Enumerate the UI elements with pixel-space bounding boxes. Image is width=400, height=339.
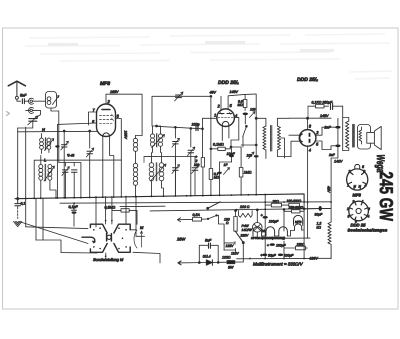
- svg-text:145V: 145V: [320, 114, 329, 118]
- svg-text:1MΩ: 1MΩ: [244, 171, 252, 175]
- svg-text:N: N: [42, 127, 45, 132]
- lamp: [252, 209, 310, 238]
- svg-text:0,1KΩ 250pF: 0,1KΩ 250pF: [312, 101, 334, 105]
- svg-text:Ω: Ω: [226, 221, 229, 225]
- svg-text:6: 6: [368, 207, 370, 211]
- socket DDD25: [346, 200, 370, 224]
- svg-text:28W: 28W: [176, 237, 186, 242]
- svg-text:3: 3: [363, 170, 365, 174]
- coil L3b: [133, 151, 137, 196]
- electrolytic 100uF a: [261, 213, 280, 224]
- trimmer T1: [61, 131, 69, 198]
- heater DDD25b: [262, 227, 291, 236]
- wire left rail x17.7: [17, 128, 19, 199]
- svg-text:Wega: Wega: [374, 155, 386, 173]
- svg-text:100Ω: 100Ω: [222, 256, 231, 260]
- ghost bleed-through texture: [25, 34, 392, 79]
- svg-text:0,1MΩ: 0,1MΩ: [213, 143, 224, 147]
- heater MF8 pair: [291, 215, 305, 230]
- capacitor 2nF upper: [322, 118, 341, 144]
- wire MF8 legs: [103, 146, 114, 196]
- svg-text:3W: 3W: [228, 266, 234, 270]
- svg-text:'5·45: '5·45: [67, 154, 74, 158]
- bus 2: [60, 202, 331, 203]
- trimmer osc top: [175, 92, 184, 101]
- svg-text:DDD 25/₁: DDD 25/₁: [218, 80, 239, 86]
- speaker: [367, 126, 381, 149]
- wire right of switch: [130, 224, 136, 236]
- capacitor blob under 0.6M: [243, 108, 256, 125]
- resistor 2M vertical: [194, 158, 205, 196]
- resistor 0.1M horizontal: [210, 143, 231, 151]
- svg-text:4: 4: [365, 184, 367, 188]
- capacitor 0.1uF left: [69, 203, 79, 226]
- trimmer T4: [86, 131, 94, 198]
- svg-text:MF8: MF8: [100, 81, 110, 87]
- svg-text:20Ω: 20Ω: [272, 200, 280, 204]
- svg-text:DDD 25/₂: DDD 25/₂: [297, 77, 318, 83]
- svg-text:MΩ: MΩ: [214, 176, 220, 180]
- svg-text:30μF: 30μF: [315, 213, 324, 217]
- capacitor 5nF antenna: [22, 99, 28, 104]
- wire h150: [202, 118, 204, 157]
- svg-text:MΩ: MΩ: [238, 103, 244, 107]
- electrolytic 50uF: [260, 252, 276, 257]
- svg-text:30μF: 30μF: [268, 254, 277, 258]
- diode line: [178, 255, 243, 266]
- capacitor 100 blob right: [247, 145, 259, 195]
- resistor 1M vertical: [239, 147, 251, 195]
- capacitor 10nF: [227, 149, 236, 162]
- trimmer mid2: [187, 128, 195, 195]
- svg-text:165V: 165V: [124, 131, 128, 140]
- resistor 130ohm vertical: [224, 210, 237, 231]
- transformer L: [39, 156, 56, 199]
- svg-text:Multiinstrument = 333Ω/V: Multiinstrument = 333Ω/V: [253, 262, 304, 267]
- coil box bottom lead: [51, 108, 59, 132]
- plug P2: [26, 107, 41, 118]
- diagonal wire to switch: [19, 222, 88, 244]
- trimmer T2: [62, 163, 70, 199]
- resistor 0.6M: [238, 94, 247, 110]
- svg-text:0,5MΩ: 0,5MΩ: [105, 206, 116, 210]
- svg-text:165V: 165V: [110, 90, 119, 94]
- ground left: [14, 222, 22, 227]
- wire MF8 anode top: [106, 94, 142, 135]
- coil L3a: [133, 136, 142, 152]
- electrolytic 30uF: [304, 206, 331, 217]
- resistor 1.2k zigzag: [317, 222, 332, 259]
- mains fuse line: [178, 213, 225, 250]
- svg-text:M: M: [262, 229, 265, 233]
- wire top tune drop: [151, 96, 153, 126]
- svg-text:0,1μF: 0,1μF: [69, 205, 79, 209]
- bottom rail: [237, 257, 332, 260]
- svg-text:1: 1: [362, 200, 364, 204]
- heater DDD25a: [266, 227, 275, 236]
- resistor 150-200: [284, 206, 304, 213]
- resistor 0.1M vertical: [209, 149, 219, 196]
- verticals below bus left: [26, 198, 43, 240]
- wires DDD25/1 legs: [222, 134, 229, 141]
- svg-text:5nF: 5nF: [205, 239, 212, 243]
- plug P1: [28, 98, 45, 104]
- resistor 0.1k + cap 250pF plate: [308, 101, 343, 119]
- wire MF8 pin3 right: [116, 119, 122, 197]
- wire osc top: [153, 126, 203, 129]
- wire DDD25/1 grid left: [203, 117, 217, 119]
- svg-text:5: 5: [348, 215, 350, 219]
- top tuning wire: [152, 95, 211, 97]
- wire block verticals: [264, 195, 266, 258]
- svg-text:0,1: 0,1: [21, 202, 26, 206]
- wires DDD25/2: [289, 135, 299, 156]
- svg-text:150-200Ω: 150-200Ω: [289, 206, 304, 210]
- tube MF8: [97, 104, 116, 146]
- capacitor 2nF lower: [322, 145, 341, 159]
- svg-text:245 GW: 245 GW: [376, 172, 397, 222]
- wire step left low: [36, 240, 97, 253]
- heater MF001A: [253, 227, 262, 236]
- rail x256: [255, 118, 257, 145]
- wire rail x25.7: [25, 127, 27, 199]
- svg-text:148V: 148V: [230, 90, 239, 94]
- svg-text:100μF: 100μF: [284, 254, 295, 258]
- svg-text:2: 2: [346, 207, 349, 211]
- switch under: [243, 125, 248, 147]
- svg-text:200 Ω: 200 Ω: [239, 205, 250, 209]
- svg-text:100μF: 100μF: [269, 220, 280, 224]
- AF transformer: [255, 117, 291, 158]
- wire DDD25/1 pin4 right: [231, 117, 239, 147]
- wire grid h131: [18, 131, 98, 162]
- svg-text:5: 5: [362, 165, 364, 169]
- svg-text:Sonderstellung M: Sonderstellung M: [93, 257, 124, 262]
- power switch blade on bus: [207, 207, 209, 209]
- svg-text:100-200Ω: 100-200Ω: [287, 199, 302, 203]
- svg-text:1: 1: [347, 184, 349, 188]
- trimmer T3: [72, 163, 78, 198]
- capacitor 1nF blob: [217, 162, 229, 195]
- transformer N: [40, 127, 54, 154]
- svg-text:140V: 140V: [334, 160, 343, 164]
- wires into switch: [96, 196, 136, 227]
- osc transformer top pair: [150, 126, 164, 153]
- svg-text:48V: 48V: [210, 91, 217, 95]
- svg-text:45V: 45V: [327, 186, 331, 193]
- socket MF8: [347, 165, 368, 191]
- electrolytic 100uF b: [267, 242, 287, 247]
- resistor 150ohm: [284, 242, 308, 250]
- svg-text:110V: 110V: [231, 251, 239, 255]
- osc transformer lower pair: [149, 153, 166, 197]
- svg-text:5nF: 5nF: [20, 93, 27, 97]
- tube DDD25/2: [299, 130, 316, 147]
- wire h206: [120, 205, 165, 207]
- svg-text:MF8: MF8: [295, 220, 302, 224]
- svg-text:3: 3: [353, 200, 355, 204]
- svg-text:100: 100: [247, 154, 253, 158]
- node osc: [156, 125, 158, 127]
- wire pin5 run: [57, 123, 96, 145]
- resistor 100ohm 3W: [222, 256, 235, 270]
- bus main ground: [15, 194, 304, 203]
- mark chevron left: [7, 112, 10, 116]
- svg-text:180V: 180V: [310, 257, 319, 261]
- junction dots bus: [25, 194, 332, 260]
- speaker secondary box: [358, 125, 371, 150]
- svg-text:220V: 220V: [240, 233, 250, 237]
- tube DDD25/1: [217, 109, 235, 134]
- svg-text:2nF: 2nF: [328, 153, 336, 157]
- svg-text:Sockelschaltungen: Sockelschaltungen: [348, 228, 388, 233]
- choke primary: [343, 106, 354, 150]
- resistor 0.5M: [105, 206, 138, 225]
- capacitor 5nF bypass: [198, 239, 219, 264]
- bowtie switch Sonderstellung: [82, 214, 130, 261]
- antenna coupling coil box: [46, 92, 60, 109]
- trimmers bottom row: [144, 157, 199, 196]
- electrolytic 100uF c: [278, 254, 294, 258]
- svg-text:MΩ: MΩ: [194, 163, 200, 167]
- shield box input: [34, 160, 121, 198]
- svg-text:100: 100: [250, 108, 256, 112]
- trimmer mid1: [172, 126, 180, 195]
- svg-text:150Ω: 150Ω: [297, 242, 306, 246]
- bus 4 left low: [26, 227, 88, 229]
- svg-text:2: 2: [348, 170, 351, 174]
- antenna: [8, 81, 25, 101]
- wires DDD25/1 top: [211, 96, 221, 149]
- svg-text:kΩ: kΩ: [317, 226, 322, 230]
- wire MF8 g7: [89, 112, 97, 125]
- svg-text:0,5A: 0,5A: [193, 213, 201, 217]
- svg-text:MF001A|DDD25|DDD25(I): MF001A|DDD25|DDD25(I): [251, 236, 285, 240]
- svg-text:100μF: 100μF: [276, 244, 287, 248]
- svg-text:14Ω/W: 14Ω/W: [242, 228, 253, 232]
- node dot bus-left: [17, 198, 19, 200]
- resistor 20ohm top: [265, 200, 289, 207]
- svg-text:125V: 125V: [226, 244, 235, 248]
- variable capacitor ant: [18, 116, 38, 128]
- svg-text:4: 4: [368, 215, 370, 219]
- svg-text:1: 1: [214, 113, 216, 118]
- wire mid h162: [59, 163, 81, 198]
- resistor 100-200 top: [287, 199, 302, 207]
- capacitor 100p: [190, 123, 200, 131]
- svg-text:MF8: MF8: [353, 193, 362, 198]
- resistor 200ohm zigzag: [239, 205, 253, 218]
- bus 3 heater line: [150, 208, 331, 211]
- capacitor block left: [15, 199, 21, 219]
- svg-text:01L4: 01L4: [203, 255, 211, 259]
- label M arrow: [134, 225, 144, 248]
- voltage selector: [224, 231, 249, 262]
